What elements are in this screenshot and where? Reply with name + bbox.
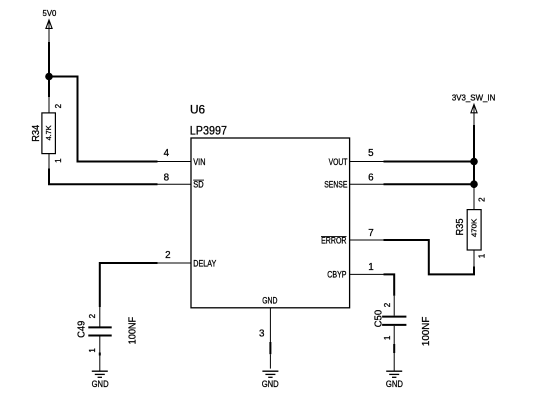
svg-text:3V3_SW_IN: 3V3_SW_IN (452, 93, 496, 103)
svg-text:C50: C50 (373, 309, 384, 327)
svg-text:8: 8 (164, 172, 170, 183)
svg-text:100NF: 100NF (421, 317, 432, 347)
svg-text:GND: GND (386, 379, 403, 389)
svg-text:R35: R35 (455, 218, 466, 235)
svg-text:5: 5 (368, 148, 374, 159)
svg-text:100NF: 100NF (128, 317, 139, 345)
svg-text:3: 3 (259, 329, 265, 340)
svg-text:2: 2 (478, 197, 487, 202)
svg-text:R34: R34 (31, 124, 42, 141)
svg-text:CBYP: CBYP (327, 270, 346, 280)
svg-text:VOUT: VOUT (329, 157, 348, 167)
svg-text:SENSE: SENSE (324, 180, 347, 190)
svg-text:LP3997: LP3997 (190, 123, 227, 137)
svg-text:4.7K: 4.7K (44, 125, 53, 140)
svg-text:2: 2 (165, 250, 170, 261)
svg-text:4: 4 (164, 148, 170, 159)
svg-text:7: 7 (368, 228, 373, 239)
svg-text:1: 1 (383, 335, 392, 340)
svg-text:6: 6 (368, 172, 374, 183)
svg-text:GND: GND (262, 379, 279, 389)
svg-text:GND: GND (92, 379, 109, 389)
svg-text:VIN: VIN (193, 157, 205, 167)
svg-text:5V0: 5V0 (43, 8, 57, 18)
svg-text:1: 1 (88, 348, 97, 353)
svg-text:1: 1 (54, 158, 63, 163)
svg-text:GND: GND (262, 296, 277, 306)
svg-text:DELAY: DELAY (193, 258, 216, 268)
svg-text:U6: U6 (190, 102, 206, 116)
svg-text:C49: C49 (76, 320, 87, 338)
svg-text:470K: 470K (469, 219, 478, 238)
svg-text:2: 2 (88, 313, 97, 318)
svg-text:SD: SD (193, 180, 203, 190)
svg-text:2: 2 (383, 302, 392, 307)
svg-text:2: 2 (54, 103, 63, 108)
svg-text:1: 1 (368, 262, 373, 273)
svg-text:1: 1 (478, 253, 487, 258)
